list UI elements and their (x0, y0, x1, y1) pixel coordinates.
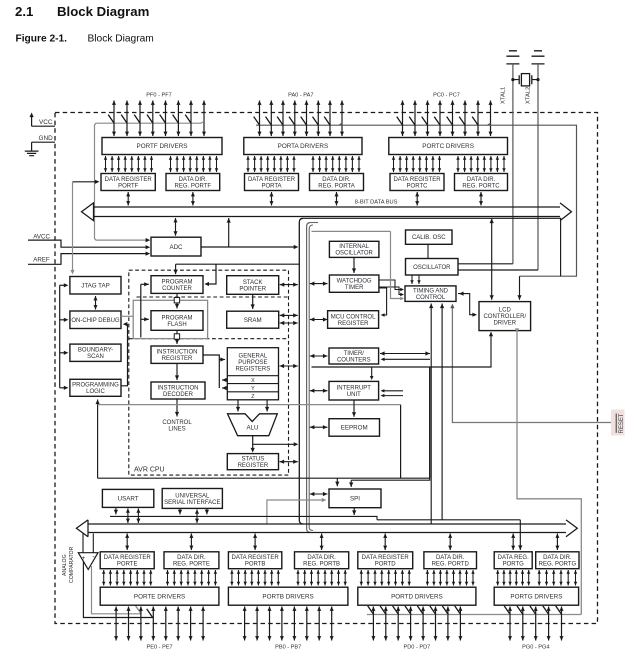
arrows X Y rows (222, 378, 227, 382)
crystal Q1 (511, 74, 539, 86)
block PORTE DRIVERS (100, 587, 219, 605)
arrow status register - bus (280, 460, 298, 464)
arrow bus-PORTE data dir (189, 534, 193, 551)
wire bus to program counter (176, 263, 299, 265)
svg-text:Figure 2-1.: Figure 2-1. (16, 34, 68, 45)
svg-text:UNIVERSAL: UNIVERSAL (175, 493, 210, 499)
arrows PORTD register-driver (360, 570, 411, 586)
alu U1 trapezoid (228, 414, 278, 436)
block UNIVERSAL SERIAL INTERFACE (162, 489, 222, 509)
block PORTD DRIVERS (358, 587, 476, 605)
pin arrows PORTD (371, 607, 462, 641)
arrow internal oscillator to watchdog (352, 257, 356, 273)
slash marks PORTF (108, 115, 191, 124)
bus bottom 8-bit data bus (76, 520, 577, 537)
arrows PORTB dir-driver (296, 570, 347, 586)
svg-text:8-BIT DATA BUS: 8-BIT DATA BUS (355, 200, 398, 206)
svg-text:DATA DIR.: DATA DIR. (543, 555, 572, 561)
arrows PORTC drivers-data register (392, 156, 441, 172)
svg-text:REGISTER: REGISTER (162, 356, 193, 362)
block DATA REGISTER PORTB (228, 552, 281, 569)
wire timing control - LCD controller (458, 294, 475, 315)
arrow register-bus (126, 192, 130, 206)
block OSCILLATOR (406, 259, 459, 276)
block WATCHDOG TIMER (329, 275, 379, 292)
svg-text:Block Diagram: Block Diagram (88, 34, 154, 45)
svg-text:POINTER: POINTER (239, 286, 266, 292)
block MCU CONTROL REGISTER (328, 311, 379, 329)
arrows PORTA drivers-data dir (311, 156, 360, 172)
svg-text:DATA REGISTER: DATA REGISTER (362, 555, 410, 561)
svg-text:PROGRAM: PROGRAM (161, 315, 192, 321)
bus vertical trunk left (299, 218, 303, 524)
svg-text:INSTRUCTION: INSTRUCTION (158, 385, 199, 391)
block STACK POINTER (227, 276, 279, 295)
arrow instruction register to decoder (175, 363, 179, 380)
arrow register-bus (479, 192, 483, 206)
svg-text:INTERRUPT: INTERRUPT (337, 386, 372, 392)
wire on-chip debug to flash box (121, 315, 133, 317)
slash marks PORTG (504, 606, 562, 615)
block ON-CHIP DEBUG (70, 311, 121, 329)
svg-text:PROGRAM: PROGRAM (161, 279, 192, 285)
arrows SRAM - bus (280, 313, 298, 317)
svg-text:Y: Y (251, 386, 255, 392)
svg-text:DATA REGISTER: DATA REGISTER (232, 555, 280, 561)
pin arrows PF0 - PF7 (112, 101, 206, 137)
arrows PORTA drivers-data register (246, 156, 295, 172)
wire gray into SPI (267, 500, 325, 524)
wire gray programming logic across CPU (98, 404, 401, 406)
arrows PORTG dir-driver (538, 570, 578, 586)
svg-text:PORTF DRIVERS: PORTF DRIVERS (137, 143, 188, 150)
wire into timer/counters right (382, 358, 430, 360)
pin arrows PORTB (243, 607, 334, 641)
block INTERNAL OSCILLATOR (329, 241, 379, 257)
svg-text:XTAL2: XTAL2 (526, 87, 532, 104)
svg-text:INTERNAL: INTERNAL (339, 244, 369, 250)
block STATUS REGISTER (227, 454, 278, 470)
AVR CPU dashed boundary (129, 270, 289, 475)
svg-text:TIMING AND: TIMING AND (413, 289, 449, 295)
wires timing and control down (429, 304, 433, 525)
wire oscillator to XTAL1 (458, 263, 513, 265)
svg-text:PORTD DRIVERS: PORTD DRIVERS (391, 593, 443, 600)
arrows PORTB register-driver (230, 570, 280, 586)
svg-text:PORTF: PORTF (118, 183, 139, 189)
arrow bus-PORTD data register (383, 534, 387, 551)
gray box around program flash (133, 300, 207, 338)
svg-text:REGISTER: REGISTER (238, 463, 269, 469)
block DATA DIR REG PORTG (536, 552, 579, 569)
block PORTF DRIVERS (102, 138, 222, 155)
svg-text:ADC: ADC (169, 244, 183, 251)
block DATA DIR REG PORTE (164, 552, 219, 569)
svg-text:EEPROM: EEPROM (341, 425, 368, 432)
arrow JTAG TAP - ON-CHIP DEBUG (94, 296, 98, 310)
wire timing control to PORTG register (377, 519, 520, 521)
svg-text:DATA DIR.: DATA DIR. (307, 555, 336, 561)
svg-text:BOUNDARY-: BOUNDARY- (78, 348, 113, 354)
block DATA DIR REG PORTC (455, 174, 508, 191)
arrow bus - mcu control (310, 317, 328, 321)
block DATA REGISTER PORTC (390, 174, 444, 191)
svg-text:AREF: AREF (33, 256, 50, 263)
wire ALU output (252, 436, 254, 452)
block SRAM (227, 311, 279, 328)
block TIMING AND CONTROL (405, 286, 456, 302)
arrow bus to LCD controller (490, 219, 494, 300)
svg-text:CONTROL: CONTROL (162, 420, 192, 426)
arrow bus-PORTD data dir (448, 534, 452, 551)
svg-text:REG. PORTG: REG. PORTG (539, 562, 577, 568)
block SPI (329, 489, 381, 508)
svg-text:CALIB. OSC: CALIB. OSC (412, 235, 446, 241)
slash marks PORTA (254, 117, 331, 126)
GND pin (32, 142, 55, 151)
comparator triangle (78, 553, 98, 570)
block DATA REGISTER PORTD (358, 552, 413, 569)
wire clock distribution right (303, 218, 560, 276)
arrow stack pointer to SRAM (251, 294, 255, 309)
arrow decoder to control lines (175, 399, 179, 417)
block DATA DIR REG PORTF (166, 174, 220, 191)
svg-text:DATA REGISTER: DATA REGISTER (248, 177, 296, 183)
svg-text:STACK: STACK (243, 280, 263, 286)
VCC pin (30, 113, 56, 127)
wire LCD segment output to bottom ports (517, 331, 581, 615)
svg-text:FLASH: FLASH (167, 322, 186, 328)
arrow bus-PORTB data dir (320, 534, 324, 551)
svg-text:ON-CHIP DEBUG: ON-CHIP DEBUG (71, 318, 120, 324)
arrow bus-PORTE data register (125, 534, 129, 551)
svg-text:VCC: VCC (39, 119, 53, 126)
svg-text:SCAN: SCAN (87, 354, 104, 360)
block EEPROM (329, 419, 380, 437)
svg-text:COUNTERS: COUNTERS (337, 357, 371, 363)
wire XTAL1 vertical (512, 64, 514, 264)
arrows USI to bus (178, 508, 182, 514)
svg-text:CONTROLLER/: CONTROLLER/ (483, 314, 526, 320)
svg-text:RESET: RESET (619, 413, 625, 433)
svg-text:DATA DIR.: DATA DIR. (467, 177, 496, 183)
block PROGRAM COUNTER (151, 276, 203, 294)
wire to LCD bottom (312, 332, 492, 367)
svg-text:PORTB DRIVERS: PORTB DRIVERS (262, 593, 313, 600)
svg-text:REG. PORTA: REG. PORTA (318, 183, 354, 189)
svg-text:OSCILLATOR: OSCILLATOR (335, 251, 373, 257)
arrow into program flash from on-chip debug (141, 317, 149, 321)
block PORTB DRIVERS (228, 587, 348, 605)
svg-text:PORTE: PORTE (117, 562, 138, 568)
arrow into interrupt unit top (371, 367, 373, 378)
pin arrows PC0 - PC7 (401, 101, 493, 137)
svg-text:GENERAL: GENERAL (239, 354, 268, 360)
svg-text:WATCHDOG: WATCHDOG (337, 279, 372, 285)
capacitor / ground for XTAL2 (532, 51, 545, 64)
svg-text:PORTA: PORTA (261, 183, 281, 189)
svg-text:PA0 - PA7: PA0 - PA7 (288, 93, 313, 99)
svg-text:LINES: LINES (168, 427, 185, 433)
pin arrows PA0 - PA7 (258, 101, 345, 137)
block PROGRAMMING LOGIC (70, 379, 121, 396)
block PORTC DRIVERS (389, 138, 508, 155)
svg-text:USART: USART (118, 496, 139, 503)
bus 8-BIT DATA BUS (82, 203, 572, 221)
arrow bus-PORTG data dir (555, 534, 559, 551)
svg-text:TIMER: TIMER (345, 285, 364, 291)
svg-text:LOGIC: LOGIC (86, 389, 105, 395)
wire XTAL2 vertical (537, 64, 539, 270)
svg-text:PF0 - PF7: PF0 - PF7 (146, 93, 172, 99)
arrows PORTE dir-driver (166, 570, 217, 586)
svg-text:PG0 - PG4: PG0 - PG4 (522, 645, 549, 651)
svg-text:AVCC: AVCC (33, 233, 50, 240)
AVCC pin wire (28, 240, 147, 247)
svg-text:COUNTER: COUNTER (162, 286, 192, 292)
wire instruction register to general purpose registers (203, 355, 219, 388)
arrows PORTF drivers-data dir (169, 156, 218, 172)
svg-text:UNIT: UNIT (347, 392, 361, 398)
svg-text:PROGRAMMING: PROGRAMMING (72, 383, 119, 389)
wire program counter to program flash (175, 293, 179, 308)
svg-text:REGISTERS: REGISTERS (236, 367, 271, 373)
block BOUNDARY-SCAN (70, 344, 121, 361)
wire LCD segment line PORTA/PORTC (256, 123, 342, 125)
bus vertical trunk right (gray pair) (307, 223, 311, 533)
arrows PORTF drivers-data register (104, 156, 153, 172)
svg-text:JTAG TAP: JTAG TAP (81, 282, 110, 289)
arrow SPI down to bus (352, 508, 356, 515)
pin arrows PORTE (114, 607, 205, 641)
arrow bus-PORTG data register (511, 534, 515, 551)
block ADC (151, 237, 201, 256)
svg-text:DATA REGISTER: DATA REGISTER (105, 177, 153, 183)
chip boundary (dashed border) (55, 113, 598, 624)
block INSTRUCTION DECODER (151, 382, 205, 399)
arrow bus-PORTB data register (253, 534, 257, 551)
wire oscillator to XTAL2 (458, 269, 538, 271)
svg-text:REGISTER: REGISTER (338, 321, 369, 327)
svg-text:REG. PORTE: REG. PORTE (173, 562, 210, 568)
block USART (102, 489, 153, 507)
block DATA DIR REG PORTD (424, 552, 477, 569)
svg-text:PORTG DRIVERS: PORTG DRIVERS (510, 593, 562, 600)
svg-text:REG. PORTB: REG. PORTB (303, 562, 340, 568)
svg-text:AVR CPU: AVR CPU (134, 467, 165, 474)
wire analog line PORTF pins (95, 122, 205, 241)
svg-text:DECODER: DECODER (163, 392, 194, 398)
block DATA REGISTER PORTE (100, 552, 154, 569)
ground symbol (GND) (25, 151, 39, 156)
block PROGRAM FLASH (151, 311, 203, 331)
wire program flash to instruction register (175, 330, 179, 344)
svg-text:DATA REG.: DATA REG. (498, 555, 529, 561)
block JTAG TAP (70, 277, 121, 295)
arrows PORTG register-driver (496, 570, 530, 586)
svg-text:DATA DIR.: DATA DIR. (436, 555, 465, 561)
arrow segment line into LCD (517, 276, 521, 300)
wire calib osc to oscillator (427, 244, 429, 258)
arrows PORTC drivers-data dir (456, 156, 505, 172)
block DATA REGISTER PORTF (101, 174, 155, 191)
AREF pin wire (28, 254, 147, 265)
svg-text:ALU: ALU (246, 425, 258, 432)
svg-text:DATA REGISTER: DATA REGISTER (393, 177, 441, 183)
wire mid horizontal (110, 516, 377, 519)
slash marks PORTD (368, 606, 461, 615)
svg-text:DRIVER: DRIVER (493, 321, 516, 327)
comparator wires to PE2/PE3 pins (83, 561, 152, 618)
wire JTAG to port F data register (73, 181, 98, 183)
block INSTRUCTION REGISTER (151, 346, 203, 363)
arrow bus - interrupt (310, 389, 328, 393)
arrow register-bus (415, 192, 419, 206)
arrow bus - spi (310, 492, 328, 496)
svg-text:XTAL1: XTAL1 (500, 87, 506, 104)
wire programming logic to SPI (98, 477, 430, 479)
block PORTA DRIVERS (244, 138, 362, 155)
wires watchdog to timing and control (379, 280, 403, 290)
svg-text:REG. PORTC: REG. PORTC (462, 183, 500, 189)
svg-text:DATA DIR.: DATA DIR. (322, 177, 351, 183)
block DATA REGISTER PORTA (245, 174, 299, 191)
arrows oscillator to timing and control (410, 275, 413, 284)
svg-text:PB0 - PB7: PB0 - PB7 (275, 645, 301, 651)
wire LCD segment line bottom (gray) (367, 614, 581, 616)
svg-text:PORTC DRIVERS: PORTC DRIVERS (422, 143, 474, 150)
svg-text:CONTROL: CONTROL (416, 295, 446, 301)
arrow into program counter from JTAG side (141, 282, 149, 286)
wire analog mux into ADC (146, 238, 151, 242)
arrow bus - timer/counters (310, 354, 328, 358)
svg-text:SERIAL INTERFACE: SERIAL INTERFACE (164, 500, 220, 506)
pin arrows PORTG (508, 607, 564, 641)
block DATA DIR REG PORTB (295, 552, 349, 569)
svg-text:PORTB: PORTB (245, 562, 266, 568)
svg-text:STATUS: STATUS (242, 457, 265, 463)
arrows general purpose registers to ALU (236, 400, 240, 412)
svg-text:PORTE DRIVERS: PORTE DRIVERS (134, 593, 185, 600)
RESET pin label (611, 410, 625, 436)
wire right loop to SPI (351, 367, 430, 480)
svg-text:PURPOSE: PURPOSE (238, 360, 267, 366)
svg-text:LCD: LCD (499, 308, 512, 314)
wires interrupt unit right (382, 390, 403, 392)
svg-text:+: + (81, 555, 85, 562)
comparator input wires (82, 534, 84, 553)
svg-text:DATA DIR.: DATA DIR. (177, 555, 206, 561)
arrows PORTE register-driver (102, 570, 152, 586)
block TIMER/COUNTERS (329, 348, 379, 364)
arrow bus - watchdog (310, 282, 328, 286)
svg-text:GND: GND (39, 135, 54, 142)
wire gray into timing and control (391, 231, 404, 298)
arrow stack pointer - bus (280, 283, 298, 287)
svg-text:COMPARATOR: COMPARATOR (69, 546, 75, 583)
arrow ADC-bus (174, 218, 178, 236)
svg-text:PORTG: PORTG (503, 562, 525, 568)
arrow register-bus (335, 192, 339, 206)
svg-text:TIMER/: TIMER/ (344, 351, 365, 357)
wire watchdog to mcu control register (right elbow) (379, 288, 387, 315)
svg-text:PC0 - PC7: PC0 - PC7 (433, 93, 460, 99)
wire left service rail (59, 285, 61, 388)
svg-text:PORTC: PORTC (407, 183, 429, 189)
slash marks PORTC (397, 117, 479, 126)
block LCD CONTROLLER/DRIVER (479, 302, 531, 331)
svg-text:REG. PORTF: REG. PORTF (175, 183, 212, 189)
block GENERAL PURPOSE REGISTERS (227, 348, 278, 400)
arrow interrupt to eeprom (352, 400, 356, 417)
svg-text:DATA DIR.: DATA DIR. (179, 177, 208, 183)
block CALIB OSC (406, 230, 453, 244)
arrow register-bus (270, 192, 274, 206)
svg-text:PORTD: PORTD (375, 562, 397, 568)
svg-text:X: X (251, 378, 255, 384)
block INTERRUPT UNIT (329, 381, 379, 400)
block PORTG DRIVERS (494, 587, 578, 605)
svg-text:SPI: SPI (350, 496, 360, 503)
svg-text:DATA REGISTER: DATA REGISTER (104, 555, 152, 561)
svg-text:PD0 - PD7: PD0 - PD7 (404, 645, 431, 651)
svg-text:SRAM: SRAM (244, 317, 262, 324)
wire programming logic to on-chip debug (121, 324, 128, 386)
capacitor / ground for XTAL1 (506, 51, 519, 64)
arrows PORTD dir-driver (426, 570, 475, 586)
svg-text:ANALOG: ANALOG (62, 554, 68, 576)
arrows USART to bus (114, 507, 118, 514)
arrow timer/counters to timing (380, 351, 430, 355)
svg-text:INSTRUCTION: INSTRUCTION (157, 350, 198, 356)
block DATA DIR REG PORTA (310, 174, 364, 191)
block DATA REGISTER PORTG (494, 552, 532, 569)
wire RESET to timing and control (452, 306, 611, 423)
svg-text:PE0 - PE7: PE0 - PE7 (147, 645, 173, 651)
wire ADC to data bus (201, 246, 296, 248)
svg-text:PORTA DRIVERS: PORTA DRIVERS (278, 143, 329, 150)
arrow bus - eeprom (310, 425, 328, 429)
svg-text:REG. PORTD: REG. PORTD (432, 562, 470, 568)
svg-text:OSCILLATOR: OSCILLATOR (413, 265, 451, 271)
arrow register-bus (191, 192, 195, 206)
svg-text:MCU CONTROL: MCU CONTROL (331, 314, 376, 320)
arrow GPR - bus (280, 364, 298, 368)
